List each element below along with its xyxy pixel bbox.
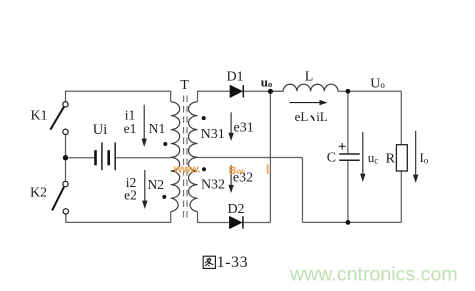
arrow I_o (current direction) [413,131,418,183]
svg-text:N1: N1 [149,121,166,136]
label eL iL [295,109,328,124]
svg-text:iL: iL [316,109,328,124]
node C top junction dot [346,89,351,94]
svg-text:e1: e1 [124,121,137,136]
switch K2 bottom contact circle [63,209,68,214]
wire secondary bottom lead to D2 anode [198,212,230,223]
battery Ui plates [96,142,116,170]
switch K1 blade [50,107,64,130]
wire K2 bottom circle to bottom rail [66,214,166,222]
wire center node to K2 top circle [65,158,67,182]
svg-text:K2: K2 [30,186,47,201]
arrow i2 e2 (primary lower current) [142,170,147,209]
svg-text:1-33: 1-33 [217,254,249,271]
polarity dot N1 [163,142,167,146]
svg-text:N2: N2 [148,177,165,192]
wire L to top-right corner [338,90,401,92]
svg-text:Bw·: Bw· [229,165,246,177]
svg-text:Io: Io [420,150,429,166]
wire secondary top lead to D1 anode [198,91,231,102]
wire riser from D2 cathode up to u_o node [269,91,271,222]
wire D2 cathode to riser corner [244,222,271,224]
diode D1 [230,85,243,97]
svg-text:Ui: Ui [93,122,108,138]
winding N32 (secondary lower) [189,157,198,211]
wire C branch upper [347,91,349,154]
wire D1 cathode to u_o node [244,90,283,92]
switch K2 top contact circle [63,181,68,186]
svg-text:N32: N32 [201,178,225,193]
winding N31 (secondary upper) [188,102,197,158]
svg-text:C: C [327,150,336,165]
switch K1 bottom contact circle [63,129,68,134]
svg-text:eL: eL [295,109,309,124]
arrow e31 (secondary upper emf) [228,112,233,141]
arrow i1 e1 (primary upper current) [142,105,147,147]
wire bottom rail right (return to R branch) [303,221,402,223]
svg-text:e31: e31 [233,121,253,136]
svg-text:N31: N31 [201,127,225,142]
wire R bottom to bottom rail [400,171,402,222]
capacitor plus sign [339,143,346,150]
node u_o junction dot [268,89,273,94]
polarity dot N32 [202,167,206,171]
svg-text:L: L [305,70,314,85]
watermark orange fragment tick [267,165,269,175]
caption 图1-33 [203,254,248,271]
svg-text:www.cntronics.com: www.cntronics.com [289,264,458,286]
arrow u_c (voltage direction) [360,132,365,182]
wire return drop down to bottom rail [302,158,304,223]
svg-text:R: R [386,152,396,167]
wire battery right lead (to primary center tap) [116,157,171,159]
transformer T core dashed lines [184,96,187,222]
polarity dot N31 [202,116,206,120]
wire K1 bottom circle to center node [65,135,67,158]
svg-text:T: T [180,78,189,93]
polarity dot N2 [162,195,166,199]
wire bottom rail left (to primary winding bottom) [166,212,171,223]
svg-text:uc: uc [368,150,379,166]
wire top rail left (K1 top to primary winding top) [66,91,171,102]
node C bottom junction dot [346,220,351,225]
wire secondary center tap to return drop [198,157,303,159]
wire top-right corner down to R top [400,91,402,144]
svg-text:Uo: Uo [370,76,385,91]
inductor L coil [283,84,338,91]
wire battery left lead [69,157,95,159]
wire u_o node to L [270,90,283,92]
resistor R body [396,145,407,171]
svg-text:www.: www. [173,164,201,176]
winding N2 (primary lower) [171,157,180,211]
arrow eL iL (current direction under L) [290,100,328,105]
switch K2 blade [52,187,64,211]
capacitor C plates [339,154,360,160]
arrow e32 (secondary lower emf) [228,165,233,193]
wire C branch lower [347,160,349,222]
svg-text:K1: K1 [30,109,47,124]
svg-text:uo: uo [261,74,272,89]
switch K1 top contact circle [63,102,68,107]
svg-text:D1: D1 [226,69,243,84]
svg-text:D2: D2 [227,202,244,217]
winding N1 (primary upper) [171,102,180,158]
node junction dot between K1 and K2 [63,155,68,160]
svg-text:e2: e2 [124,187,137,202]
diode D2 [229,216,243,228]
